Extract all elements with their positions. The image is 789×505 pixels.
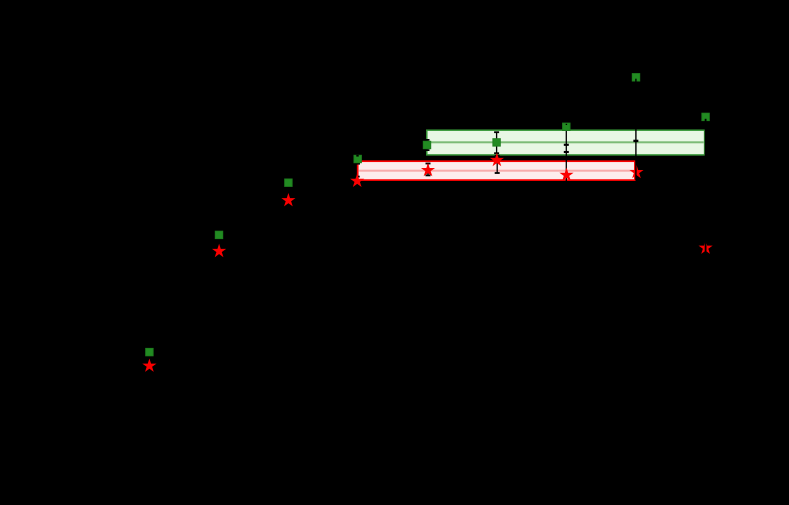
red star marker T4: [352, 175, 363, 185]
aggregate error line at x=705.6 (notch in S9, splits star T9): [705, 119, 707, 256]
red star marker T9: [700, 242, 711, 252]
green square marker S2: [215, 231, 223, 239]
green square marker S5: [423, 141, 431, 149]
red star marker T8: [631, 167, 642, 177]
green square marker S3: [285, 179, 293, 187]
green band center line: [428, 141, 704, 143]
red band center line: [359, 170, 634, 172]
error bar for star T5: [426, 163, 431, 177]
aggregate error line at x=636 (over S8 bottom, green band, T8 star): [633, 79, 638, 181]
red star marker T5: [422, 165, 433, 175]
error bar for square S6: [494, 131, 499, 154]
error bars for S7/T7 (continuous line): [564, 108, 569, 199]
error bar for star T4: [355, 176, 360, 186]
green square marker S8: [632, 74, 640, 82]
red star marker T2: [214, 245, 225, 255]
error bar for star T6: [495, 155, 500, 174]
green square marker S4: [354, 155, 362, 163]
error bar for square S5: [425, 139, 430, 151]
red star marker T1: [144, 360, 155, 370]
green square marker S6: [493, 139, 501, 147]
small notch at top of square S7: [566, 124, 567, 125]
small notch at top of square S4: [356, 155, 358, 157]
green square marker S7: [563, 123, 571, 131]
red star marker T7: [561, 169, 572, 179]
error bar for square S4: [355, 155, 360, 165]
green square marker S1: [146, 348, 154, 356]
green shaded band (upper): [427, 130, 705, 155]
red star marker T3: [283, 195, 294, 205]
red star marker T6: [491, 154, 502, 164]
red shaded band (lower): [358, 161, 635, 180]
green square marker S9: [702, 113, 710, 121]
